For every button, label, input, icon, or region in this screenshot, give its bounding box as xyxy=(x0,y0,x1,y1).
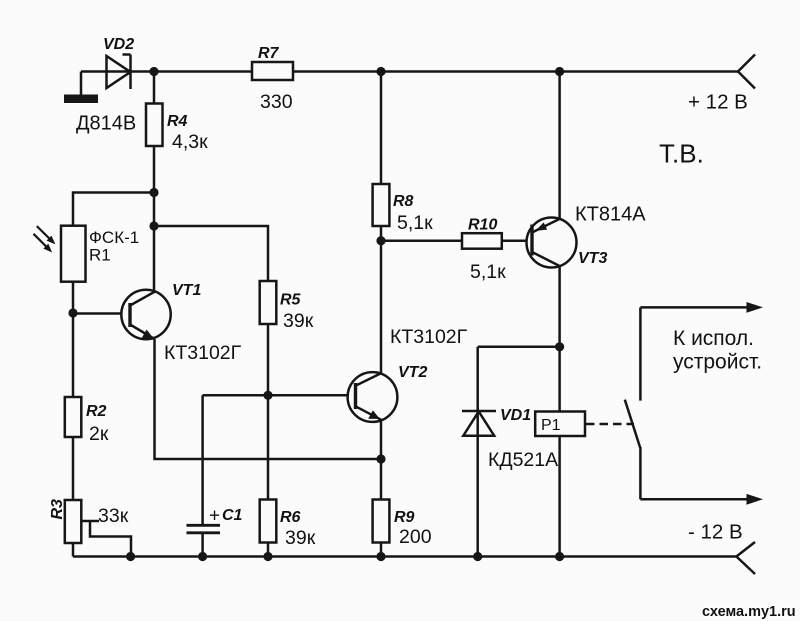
wire VT1 emitter down and right to VT2 emitter xyxy=(155,339,382,459)
svg-text:Д814В: Д814В xyxy=(76,113,136,135)
node dot VT1 base / R1-R2 xyxy=(68,308,77,317)
node -12V terminal fork xyxy=(736,542,755,574)
svg-text:4,3к: 4,3к xyxy=(172,131,208,153)
svg-text:R5: R5 xyxy=(280,292,302,309)
svg-text:R9: R9 xyxy=(394,509,415,526)
resistor R10 xyxy=(462,233,502,249)
wire R8/VT2 collector column x=381 xyxy=(380,72,383,375)
resistor R3 potentiometer xyxy=(65,500,82,543)
node dot VT3 collector / VD1 xyxy=(555,342,564,351)
svg-text:5,1к: 5,1к xyxy=(397,212,433,234)
light arrow 1 xyxy=(37,226,56,244)
transistor VT2 xyxy=(348,372,398,422)
wire branch to R1 top xyxy=(73,193,154,557)
svg-text:39к: 39к xyxy=(283,310,314,332)
relay dashed actuation line xyxy=(586,423,634,426)
node dot rail R3 wiper xyxy=(126,552,135,561)
wire VD1 column xyxy=(476,347,479,557)
svg-text:39к: 39к xyxy=(285,527,316,549)
wire bottom -12V rail xyxy=(73,555,736,558)
svg-text:R2: R2 xyxy=(86,403,107,420)
resistor R9 xyxy=(373,500,390,543)
svg-text:R8: R8 xyxy=(393,193,414,210)
wire VD1 top link xyxy=(478,346,560,349)
resistor R5 xyxy=(260,281,277,324)
wire VT3 emitter up xyxy=(558,72,561,220)
svg-text:VD2: VD2 xyxy=(103,36,134,53)
svg-text:2к: 2к xyxy=(89,423,109,445)
node dot top rail / VT3 emitter xyxy=(555,67,564,76)
switch blade xyxy=(625,400,640,448)
svg-text:R10: R10 xyxy=(468,217,497,234)
svg-text:R1: R1 xyxy=(89,246,111,265)
node +12V terminal fork xyxy=(738,55,755,89)
wire C1 top lead xyxy=(201,395,204,524)
node dot R5/R6/C1/VT2 base xyxy=(263,391,272,400)
svg-text:КТ3102Г: КТ3102Г xyxy=(390,326,468,348)
relay P1 coil box xyxy=(535,412,585,437)
wire left drop to chassis bar xyxy=(80,72,83,96)
resistor R7 xyxy=(252,62,293,80)
resistor R6 xyxy=(260,500,277,543)
wire cross-coupling C1/R5R6/VT2-base y=395.3 xyxy=(203,394,356,397)
svg-text:+ 12 В: + 12 В xyxy=(688,91,748,114)
diode VD1 xyxy=(462,411,496,436)
svg-text:Т.В.: Т.В. xyxy=(659,139,704,169)
wire branch to R5 top xyxy=(154,226,268,557)
node dot VT2 emitter / VT1 emitter xyxy=(376,454,385,463)
wire R3 wiper path xyxy=(82,521,132,557)
capacitor C1 plates xyxy=(187,525,221,533)
node dot R8/R10/VT2 collector xyxy=(376,236,385,245)
svg-text:КТ814А: КТ814А xyxy=(575,204,646,226)
svg-text:устройст.: устройст. xyxy=(673,351,762,374)
wire VT3 collector down through relay xyxy=(558,266,561,557)
transistor VT1 xyxy=(121,290,170,339)
svg-text:КТ3102Г: КТ3102Г xyxy=(164,342,242,364)
svg-text:+: + xyxy=(209,506,220,527)
transistor VT3 xyxy=(527,218,577,268)
svg-text:330: 330 xyxy=(260,91,293,113)
node dot top rail / R8 xyxy=(376,67,385,76)
svg-text:КД521А: КД521А xyxy=(488,449,558,471)
diode VD2 zener xyxy=(107,55,131,90)
svg-text:5,1к: 5,1к xyxy=(470,261,506,283)
node dot rail R6 xyxy=(263,552,272,561)
svg-text:R4: R4 xyxy=(167,113,188,130)
ground chassis bar xyxy=(64,95,98,104)
resistor R4 xyxy=(146,104,163,147)
svg-text:К испол.: К испол. xyxy=(673,327,754,350)
svg-text:VT3: VT3 xyxy=(578,250,607,267)
node dot rail VD1 xyxy=(473,552,482,561)
wire R10 base link xyxy=(381,240,532,243)
wire R4 column x=154 down to VT1 collector xyxy=(153,72,156,293)
resistor R1 photoresistor body xyxy=(61,226,86,282)
resistor R8 xyxy=(373,184,390,226)
svg-text:200: 200 xyxy=(399,526,432,548)
svg-text:- 12 В: - 12 В xyxy=(688,521,743,544)
svg-text:VT1: VT1 xyxy=(172,282,201,299)
node dot R5 branch xyxy=(149,221,158,230)
node dot R1 branch xyxy=(149,188,158,197)
node dot rail R9 xyxy=(376,552,385,561)
svg-text:VT2: VT2 xyxy=(398,364,427,381)
node dot top rail / R4 xyxy=(149,67,158,76)
node dot rail relay xyxy=(555,552,564,561)
svg-text:VD1: VD1 xyxy=(500,407,531,424)
svg-text:Р1: Р1 xyxy=(541,417,561,434)
arrow to load bottom xyxy=(640,494,763,505)
svg-text:C1: C1 xyxy=(222,507,243,524)
svg-text:33к: 33к xyxy=(98,505,129,527)
switch lower stub xyxy=(639,447,642,499)
wire VT1 base xyxy=(73,312,130,315)
wire C1 bottom lead xyxy=(201,534,204,557)
svg-text:схема.my1.ru: схема.my1.ru xyxy=(702,604,796,620)
wire top +12V rail xyxy=(81,70,738,73)
switch contact upper stub xyxy=(639,307,642,400)
node dot rail C1 xyxy=(198,552,207,561)
svg-text:R3: R3 xyxy=(49,499,66,520)
svg-text:R7: R7 xyxy=(258,45,280,62)
wire VT2 emitter down through R9 xyxy=(380,419,383,557)
arrow to load top xyxy=(640,302,763,313)
resistor R2 xyxy=(65,397,82,437)
light arrow 2 xyxy=(34,234,53,253)
svg-text:ФСК-1: ФСК-1 xyxy=(89,228,139,247)
svg-text:R6: R6 xyxy=(280,509,301,526)
